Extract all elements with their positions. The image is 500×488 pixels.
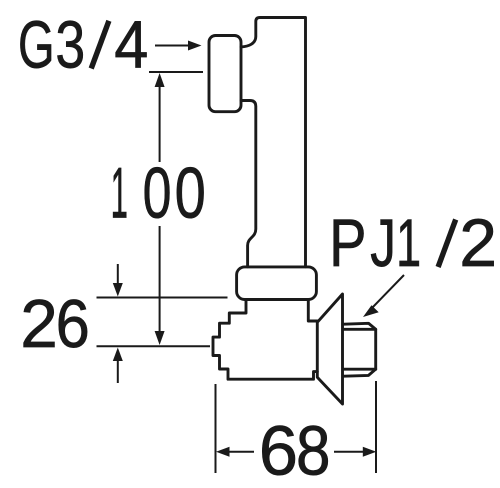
- 68 dim line left: [227, 451, 254, 453]
- nipple shoulder top: [344, 328, 376, 331]
- arrowhead 26 down: [113, 283, 123, 297]
- label 100: [111, 154, 206, 234]
- svg-text:6: 6: [259, 412, 298, 488]
- 68 ext line right: [375, 381, 377, 473]
- body left zigzag: [213, 300, 317, 380]
- pipe body vertical: [241, 18, 306, 267]
- label 26: [20, 286, 90, 362]
- ext line outlet level: [97, 345, 211, 347]
- 26 lower arrow stem: [117, 358, 119, 383]
- arrowhead 68 left: [216, 447, 230, 457]
- label 68: [259, 412, 331, 488]
- svg-text:3: 3: [55, 8, 85, 83]
- arrowhead 26 up: [113, 348, 123, 362]
- collar ring: [237, 267, 317, 300]
- svg-text:G: G: [18, 8, 55, 83]
- arrowhead G3/4 right: [188, 41, 202, 51]
- 26 upper arrow stem: [117, 264, 119, 286]
- svg-text:2: 2: [459, 206, 497, 281]
- ext line G3/4 level: [149, 71, 203, 73]
- PJ1/2 arrow line: [371, 275, 404, 309]
- svg-text:0: 0: [143, 154, 172, 234]
- svg-text:0: 0: [175, 154, 206, 234]
- nipple shoulder bottom: [344, 368, 376, 371]
- 100 dim vline lower: [159, 226, 161, 336]
- G3/4 arrow line: [155, 45, 190, 47]
- svg-text:8: 8: [296, 412, 331, 488]
- arrowhead 100 up: [155, 73, 165, 87]
- G3/4 cylinder: [209, 36, 241, 112]
- svg-text:1: 1: [396, 206, 421, 281]
- arrowhead 68 right: [363, 447, 377, 457]
- flange (escutcheon): [317, 294, 342, 404]
- svg-text:P: P: [329, 206, 366, 281]
- svg-text:2: 2: [20, 286, 58, 362]
- pipe left lower edge: [241, 101, 256, 267]
- svg-text:4: 4: [114, 8, 148, 83]
- 100 dim vline upper: [159, 84, 161, 162]
- arrowhead PJ1/2: [363, 305, 379, 317]
- label PJ1/2: [329, 206, 497, 281]
- nipple PJ1/2 outline: [344, 323, 376, 376]
- svg-text:1: 1: [111, 154, 128, 234]
- ext line collar level: [97, 297, 228, 299]
- svg-text:6: 6: [56, 286, 90, 362]
- 68 ext line left: [215, 384, 217, 473]
- 68 dim line right: [334, 451, 366, 453]
- label G3/4: [18, 8, 148, 83]
- svg-text:J: J: [370, 206, 396, 281]
- arrowhead 100 down: [155, 331, 165, 345]
- body right neck: [308, 300, 317, 322]
